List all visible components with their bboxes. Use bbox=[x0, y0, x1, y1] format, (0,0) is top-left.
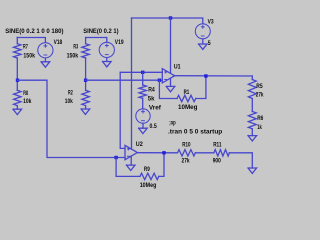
wire U1 Vplus power stub bbox=[170, 18, 172, 73]
ground under Vref bbox=[139, 128, 148, 133]
wire node A down to U2 plus input bbox=[120, 72, 125, 148]
svg-text:R9: R9 bbox=[144, 166, 150, 173]
svg-text:900: 900 bbox=[213, 158, 221, 165]
wire R7 bottom to R8 top bbox=[16, 58, 18, 90]
svg-text:Vref: Vref bbox=[149, 105, 162, 112]
svg-text:R7: R7 bbox=[23, 44, 28, 51]
wire feedback down to R1 left bbox=[159, 80, 177, 98]
resistor R11 zigzag bbox=[214, 150, 230, 156]
voltage source Vref bbox=[136, 109, 150, 123]
svg-text:150k: 150k bbox=[67, 52, 79, 59]
junction node A to R4 bbox=[141, 71, 144, 74]
ground under R6 bbox=[248, 136, 257, 141]
wire U1 Vminus power stub bbox=[170, 79, 172, 86]
ground under U1 bbox=[166, 86, 175, 91]
resistor R7 zigzag bbox=[14, 44, 21, 58]
svg-text:V19: V19 bbox=[115, 39, 124, 46]
ground under V18 bbox=[41, 62, 50, 67]
op-amp U1 bbox=[162, 69, 174, 83]
wire V3 rail down to U2 Vplus power bbox=[131, 18, 133, 149]
op-amp U2 bbox=[125, 145, 137, 159]
svg-text:10k: 10k bbox=[23, 98, 31, 105]
junction U2 output to R9 bbox=[162, 151, 165, 154]
wire U1 output down to R5 bbox=[251, 76, 253, 80]
wire R3 top to V19 plus bbox=[86, 38, 107, 43]
junction U2 minus to R9 feedback bbox=[114, 156, 117, 159]
wire R9 right up to U2 output bbox=[159, 153, 164, 177]
wire R11 to ground right bbox=[229, 153, 252, 168]
ground under U2 bbox=[126, 165, 135, 170]
svg-text:U2: U2 bbox=[136, 141, 143, 148]
svg-text:27k: 27k bbox=[256, 92, 264, 99]
svg-text:U1: U1 bbox=[174, 64, 181, 71]
svg-text:R1: R1 bbox=[184, 89, 190, 96]
ground under V3 bbox=[199, 44, 208, 49]
svg-text:SINE(0 0.2 1): SINE(0 0.2 1) bbox=[83, 28, 118, 35]
junction U1 output to R1 bbox=[204, 74, 207, 77]
wire R7-R8 tap to U2 minus input bbox=[17, 80, 125, 157]
resistor R1 zigzag bbox=[177, 95, 196, 101]
resistor R4 zigzag bbox=[139, 85, 146, 98]
resistor R3 zigzag bbox=[82, 44, 89, 58]
junction node R7-R8 tap bbox=[16, 79, 19, 82]
wire U1 output bbox=[175, 75, 253, 77]
resistor R2 zigzag bbox=[82, 90, 89, 105]
svg-text:R10: R10 bbox=[182, 141, 190, 148]
resistor R10 zigzag bbox=[178, 150, 196, 156]
svg-text:R2: R2 bbox=[68, 90, 73, 97]
wire R5 bottom to R6 top bbox=[251, 99, 253, 112]
svg-text:R3: R3 bbox=[73, 44, 78, 51]
svg-text:;op: ;op bbox=[169, 119, 176, 126]
svg-text:10Meg: 10Meg bbox=[140, 182, 157, 189]
wire U2 minus down to R9 left bbox=[116, 158, 140, 177]
resistor R6 zigzag bbox=[248, 112, 256, 129]
svg-text:V3: V3 bbox=[208, 18, 214, 25]
wire R7 top lead bbox=[16, 38, 18, 44]
wire R2 bottom to ground bbox=[85, 106, 87, 109]
wire U2 output bbox=[137, 152, 177, 154]
resistor R9 zigzag bbox=[140, 173, 159, 179]
ground under V19 bbox=[103, 62, 112, 67]
wire node A down to R4 bbox=[142, 72, 144, 85]
wire R3-R2 tap to U1 minus input bbox=[86, 79, 163, 81]
svg-text:150k: 150k bbox=[23, 53, 35, 60]
voltage source V3 bbox=[195, 24, 210, 39]
wire node A to U1 plus input bbox=[120, 71, 162, 73]
wire V3 minus to ground bbox=[202, 39, 204, 44]
junction node R3-R2 tap bbox=[84, 79, 87, 82]
svg-text:.tran 0 5 0 startup: .tran 0 5 0 startup bbox=[168, 128, 222, 135]
wire R10 to R11 bbox=[195, 152, 214, 154]
svg-text:SINE(0 0.2 1 0 0 180): SINE(0 0.2 1 0 0 180) bbox=[5, 28, 63, 35]
wire R6 bottom to ground bbox=[251, 129, 253, 136]
svg-text:5: 5 bbox=[208, 40, 211, 47]
svg-text:5k: 5k bbox=[148, 95, 155, 102]
svg-text:0.5: 0.5 bbox=[150, 123, 157, 130]
svg-text:R11: R11 bbox=[213, 141, 221, 148]
wire V18 minus to ground bbox=[44, 58, 46, 62]
wire R3 bottom to R2 top bbox=[85, 58, 87, 90]
junction V3 rail to U1 power bbox=[169, 16, 172, 19]
voltage source V19 bbox=[99, 42, 114, 57]
svg-text:R6: R6 bbox=[257, 115, 263, 122]
wire U2 Vminus power stub bbox=[130, 156, 132, 165]
resistor R8 zigzag bbox=[14, 90, 21, 105]
wire R3 top lead bbox=[85, 38, 87, 44]
svg-text:10Meg: 10Meg bbox=[178, 104, 198, 111]
ground under R2 bbox=[81, 109, 90, 114]
wire R1 right up to U1 output bbox=[196, 76, 206, 99]
wire V19 minus to ground bbox=[106, 58, 108, 62]
resistor R5 zigzag bbox=[248, 80, 256, 99]
svg-text:27k: 27k bbox=[182, 158, 190, 165]
svg-text:1k: 1k bbox=[257, 124, 262, 131]
voltage source V18 bbox=[38, 43, 53, 58]
wire R4 bottom to Vref plus bbox=[142, 98, 144, 109]
ground under R8 bbox=[13, 109, 22, 114]
svg-text:R5: R5 bbox=[256, 83, 263, 90]
wire V3 plus rail bbox=[132, 18, 203, 23]
junction U1 minus feedback bbox=[158, 79, 161, 82]
wire R7 top to V18 plus bbox=[17, 38, 45, 43]
wire Vref minus to ground bbox=[142, 123, 144, 128]
wire R8 bottom to ground bbox=[16, 106, 18, 110]
svg-text:R8: R8 bbox=[23, 90, 28, 97]
svg-text:R4: R4 bbox=[148, 87, 155, 94]
svg-text:V18: V18 bbox=[54, 39, 63, 46]
ground at output bbox=[248, 168, 257, 173]
svg-text:10k: 10k bbox=[65, 98, 73, 105]
